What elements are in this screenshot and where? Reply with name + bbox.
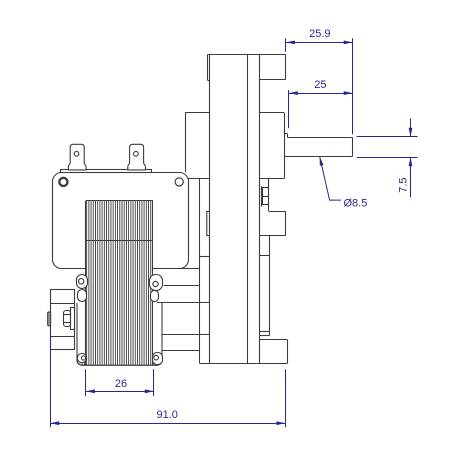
svg-text:25.9: 25.9 [309,28,330,40]
svg-text:26: 26 [115,378,127,390]
svg-text:7.5: 7.5 [397,177,409,192]
svg-text:25: 25 [314,79,326,91]
svg-text:91.0: 91.0 [156,409,177,421]
svg-text:Ø8.5: Ø8.5 [344,198,368,210]
